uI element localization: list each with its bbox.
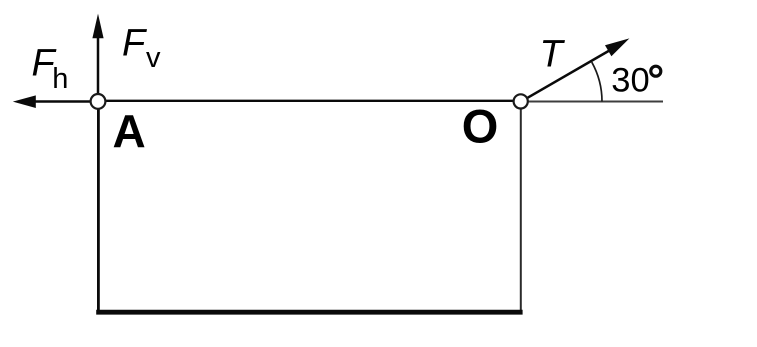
wire: right edge of gate xyxy=(520,101,522,312)
svg-text:F: F xyxy=(122,23,147,65)
svg-text:T: T xyxy=(540,34,566,76)
svg-text:30: 30 xyxy=(611,62,649,100)
wire: left edge of gate xyxy=(97,101,100,312)
wire: horizontal reference ray from O xyxy=(526,101,663,103)
node A pivot circle xyxy=(91,94,106,109)
svg-text:O: O xyxy=(462,99,499,152)
wire: bottom edge of gate (bold) xyxy=(96,310,522,315)
arrow T at 30 degrees xyxy=(528,49,613,98)
wire: top edge of gate A to O xyxy=(98,100,520,102)
arrow Fv (vertical up) xyxy=(97,36,100,94)
arc: 30 degree angle indicator xyxy=(592,62,602,101)
svg-text:v: v xyxy=(146,42,161,74)
arrow Fh (horizontal left) xyxy=(34,100,91,103)
svg-text:A: A xyxy=(113,105,146,157)
node O pivot circle xyxy=(514,94,528,108)
svg-text:h: h xyxy=(52,63,68,95)
